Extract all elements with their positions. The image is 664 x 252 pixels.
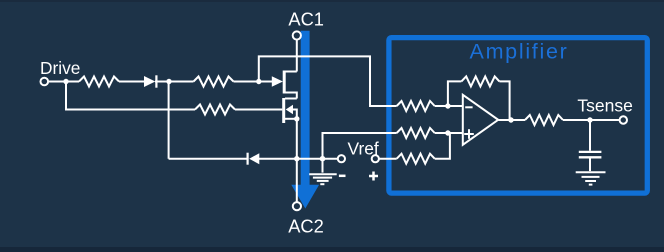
transistor Q2 body arrow [286, 105, 293, 114]
transistor Q2 drain stub [285, 98, 297, 100]
wire R1 to D1 [119, 81, 144, 83]
junction dot op-amp plus input [445, 130, 450, 135]
wire D2 to Vref terminal [259, 158, 341, 160]
wire AC1 terminal to Q1 drain [296, 39, 298, 72]
svg-text:AC1: AC1 [288, 8, 324, 29]
transistor Q2 body stub [293, 110, 297, 119]
junction dot bottom rail at AC2 [294, 156, 299, 161]
wire op-amp output [499, 119, 526, 121]
amplifier box U1 [389, 38, 647, 194]
wire Drive branch down to R3 [66, 82, 195, 110]
wire R8 to Tsense [563, 119, 620, 121]
ground G1 stub [322, 159, 324, 173]
terminal AC1 [293, 31, 301, 39]
wire feedback left leg [448, 81, 462, 106]
op-amp U2 triangle [463, 95, 498, 145]
junction dot gate node [256, 79, 261, 84]
junction dot op-amp output [508, 117, 513, 122]
svg-text:Vref: Vref [348, 139, 379, 159]
wire D1 to R2 [155, 81, 194, 83]
op-amp minus sign [465, 106, 472, 108]
transistor Q1 channel bar [283, 71, 286, 94]
transistor Q1 gate arrow [272, 76, 283, 86]
wire R3 to Q2 gate [235, 109, 282, 111]
svg-text:Drive: Drive [40, 58, 80, 78]
wire node A up and over to amp input [259, 56, 397, 106]
svg-text:Tsense: Tsense [577, 95, 632, 115]
current arrow AC1 to AC2 [291, 31, 319, 209]
svg-text:AC2: AC2 [288, 216, 324, 237]
wire R2 to Q1 gate arrow [234, 81, 273, 83]
resistor R8 output [525, 115, 563, 125]
junction dot op-amp minus input [445, 103, 450, 108]
resistor R3 [195, 105, 235, 115]
wire bottom rail to AC2 terminal [296, 159, 298, 203]
terminal AC2 [293, 202, 301, 210]
wire C1 to ground G2 [589, 158, 591, 171]
wire Q2 source to bottom rail [296, 119, 298, 159]
terminal Vref minus side [338, 155, 345, 162]
ground G2 bars [576, 171, 606, 173]
transistor Q2 channel bar [282, 98, 285, 123]
junction dot Tsense node [587, 117, 592, 122]
junction dot node A after D1 [166, 79, 171, 84]
resistor R6 amp row3 [397, 154, 435, 164]
terminal Drive [41, 78, 49, 86]
wire ground tap up to amp plus input row [323, 133, 397, 159]
wire Vref plus terminal to amp R row3 [375, 158, 396, 160]
resistor R2 [194, 77, 234, 87]
resistor R5 amp row2 [397, 128, 435, 138]
wire R6 up to plus input node [435, 133, 450, 159]
capacitor C1 plates [579, 151, 602, 153]
transistor Q1 source stub [285, 93, 297, 99]
junction dot after Drive [63, 79, 68, 84]
junction dot ground tap [320, 156, 326, 162]
svg-text:Amplifier: Amplifier [470, 40, 569, 64]
wire Tsense node down to C1 [589, 120, 591, 151]
Vref plus sign [369, 175, 378, 178]
Vref minus sign [339, 175, 346, 178]
ground G1 bars [309, 173, 337, 175]
terminal Vref plus side [372, 155, 379, 162]
op-amp plus sign [464, 133, 474, 135]
resistor R4 amp row1 [397, 101, 435, 111]
transistor Q2 source stub [285, 118, 299, 120]
wire feedback right leg to output [499, 81, 509, 120]
resistor R1 [79, 77, 119, 87]
junction dot Q2 source [294, 116, 299, 121]
wire Drive to R1 [44, 81, 79, 83]
resistor R7 feedback [461, 76, 499, 86]
wire R5 to op-amp plus [435, 132, 464, 134]
terminal Tsense [620, 116, 627, 123]
diode D1 [144, 76, 155, 87]
diode D2 [249, 153, 259, 164]
transistor Q1 drain stub [285, 71, 297, 73]
wire node B down to bottom rail [168, 82, 170, 159]
wire bottom rail left to D2 [169, 158, 248, 160]
wire R4 to op-amp minus [435, 105, 464, 107]
